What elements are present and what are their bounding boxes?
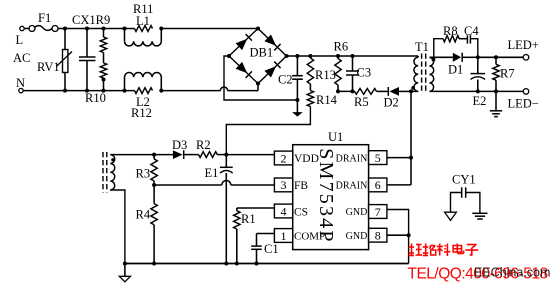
resistor R12 [131,88,153,120]
resistor R14 [307,84,337,107]
ground arrow primary [292,100,303,117]
wire D2 to drain node [399,90,411,92]
junction R10 bottom [102,89,106,93]
wire R2 to VDD node [217,154,226,156]
transformer T1 primary [414,40,429,91]
svg-text:E1: E1 [205,166,219,180]
node N terminal [16,76,25,93]
resistor R13 [307,56,336,84]
junction RV1 top [63,27,67,31]
svg-text:N: N [16,76,25,90]
inductor L1 [125,14,162,46]
svg-text:5: 5 [375,151,381,165]
junction R9/R10 mid [102,78,106,82]
pin 4 box [274,204,292,218]
junction L2 right [159,89,163,93]
capacitor CY1 [452,173,476,198]
svg-text:CS: CS [294,207,308,219]
wire R9-R10 [103,53,105,64]
wire FB line [154,184,222,186]
wire R8 to C4 [459,38,467,40]
wire L to fuse [25,28,30,30]
pin 6 box [369,178,387,192]
T1 secondary polarity dot [432,58,436,62]
resistor R7 [493,57,515,91]
junction C2 bottom [295,98,299,102]
svg-text:EEChina.com: EEChina.com [474,266,550,280]
label AC [13,51,30,65]
junction CX1 top [85,27,89,31]
svg-text:C1: C1 [264,242,279,256]
bridge diode L-T [236,34,252,50]
wire DC- from bridge [224,56,297,100]
svg-text:R7: R7 [500,67,515,81]
ground earth secondary [490,91,502,116]
junction aux ground [123,262,127,266]
bridge DB1 outline [229,29,287,84]
capacitor C4 [464,24,479,44]
diode D1 [448,53,463,77]
wire D1 to E2 node [462,56,478,58]
resistor R10 [85,63,107,105]
wire pin8 to gnd [387,234,409,236]
wire DC+ rail [287,55,419,57]
wire top rail fuse to L1 [58,28,135,30]
wire N rail [23,90,134,92]
svg-text:F1: F1 [38,11,51,25]
wire COMP line [257,233,275,235]
svg-text:6: 6 [375,178,381,192]
junction RV1 bottom [63,89,67,93]
svg-text:GND: GND [346,231,368,242]
junction C3 bottom [351,89,355,93]
capacitor C1 [251,234,278,264]
wire to LED+ [496,56,523,58]
wire VDD node to pin2 [226,154,274,156]
svg-text:L: L [16,33,24,47]
watermark EEChina.com [474,266,550,280]
svg-text:SM7534P: SM7534P [315,148,337,243]
junction R7 bottom [494,89,498,93]
label COMP [294,231,325,243]
resistor R4 [136,185,158,264]
svg-text:R4: R4 [136,208,151,222]
svg-text:D1: D1 [448,63,463,77]
svg-text:E2: E2 [473,94,487,108]
wire CS line [237,207,275,209]
label GND pin8 [346,231,368,242]
wire D3 to R2 [184,154,199,156]
wire to R7 [478,56,496,58]
wire N rail hop to bridge [228,84,258,91]
wire aux to D3 [154,154,173,156]
wire secondary bottom [430,90,524,92]
junction R9 top [102,27,106,31]
svg-text:RV1: RV1 [37,60,60,74]
junction drain node [409,89,413,93]
junction R6 top [336,54,340,58]
transformer T1 secondary [430,58,434,92]
pin 3 box [274,178,292,192]
capacitor E1 [205,155,233,264]
watermark TEL line [408,266,548,283]
watermark chinese company name [409,244,479,257]
pin 2 box [274,151,292,165]
svg-text:C4: C4 [464,24,479,38]
label FB [294,180,308,192]
fuse F1 [29,11,58,32]
wire R14 to VDD node [226,107,310,155]
wire FB hop over E1 [222,181,231,186]
junction R6 bottom [336,89,340,93]
junction pin5 drain [409,156,413,160]
svg-text:AC: AC [13,51,30,65]
svg-text:L2: L2 [136,95,150,109]
wire C4 down to cathode node [470,39,477,58]
wire drain vertical [410,91,412,184]
junction L2 left [123,89,127,93]
capacitor C2 [278,56,303,100]
junction C1 bottom [255,262,259,266]
svg-text:R5: R5 [354,95,369,109]
svg-text:4: 4 [281,204,287,218]
junction L1 left [123,27,127,31]
bridge diode B-R [264,62,280,78]
wire aux bottom [110,190,125,264]
junction R13 top [308,54,312,58]
bridge diode L-B [236,62,252,78]
svg-text:T1: T1 [415,40,429,54]
svg-text:C2: C2 [278,73,293,87]
junction R3 bottom FB [152,183,156,187]
svg-text:R8: R8 [443,24,458,38]
resistor R8 [443,24,459,42]
label CS [294,207,308,219]
svg-text:3: 3 [281,178,287,192]
junction C3 top [351,54,355,58]
svg-text:R10: R10 [85,91,106,105]
label DRAIN pin5 [336,154,368,165]
label GND pin7 [346,207,368,218]
junction L1 right [159,27,163,31]
aux polarity dot [111,158,114,161]
node L terminal [16,26,25,47]
wire aux top [110,154,154,156]
junction VDD node [224,153,228,157]
label DRAIN pin6 [336,181,368,192]
svg-text:CY1: CY1 [452,173,476,187]
svg-text:C3: C3 [357,66,372,80]
junction R1 bottom [235,262,239,266]
wire R5 to D2 [377,90,389,92]
resistor R5 [354,89,377,110]
svg-text:R1: R1 [241,212,256,226]
aux winding coil [110,155,114,190]
aux winding core [103,152,107,193]
junction bridge left [227,54,231,58]
junction E2 bottom [476,89,480,93]
svg-text:LED−: LED− [508,97,539,111]
svg-text:8: 8 [375,229,381,243]
junction bridge bottom [256,82,260,86]
junction bridge right [285,54,289,58]
pin 1 box [274,229,292,243]
wire top rail L1 to bridge [161,28,258,30]
pin 8 box [369,228,387,242]
node LED- terminal [508,89,539,111]
svg-text:DRAIN: DRAIN [336,154,368,165]
svg-text:LED+: LED+ [508,38,539,52]
wire pin6 to drain [387,184,411,186]
svg-text:GND: GND [346,207,368,218]
resistor R6 [334,40,349,92]
svg-text:U1: U1 [328,130,343,144]
wire CY1 left [451,193,462,213]
varistor RV1 [37,29,72,91]
svg-text:D3: D3 [172,138,187,152]
label SM7534P [315,148,337,243]
svg-text:R2: R2 [196,138,211,152]
wire pin7 to gnd [387,210,409,264]
wire FB to pin3 [231,184,275,186]
wire secondary top [430,56,453,58]
junction R3 top [152,153,156,157]
junction R7 top [494,55,498,59]
svg-text:CX1R9: CX1R9 [72,13,110,27]
junction E2 top [476,55,480,59]
svg-text:7: 7 [375,205,381,219]
diode D3 [172,138,187,159]
junction C2 top [295,54,299,58]
wire CY1 right [466,193,480,214]
wire drain node to primary [411,90,418,92]
svg-text:L1: L1 [136,14,150,28]
pin 7 box [369,205,387,219]
node LED+ terminal [508,38,539,60]
wire hop over DC- wire [220,87,227,91]
resistor R11 [133,2,153,31]
junction bridge top [256,27,260,31]
snubber branch up [434,39,443,58]
wire pin5 to drain [387,157,411,159]
T1 primary polarity dot [411,86,415,90]
resistor R3 [136,155,158,185]
ground triangle CY1 [445,212,457,220]
pin 5 box [369,151,387,165]
svg-text:DB1: DB1 [250,46,274,60]
svg-text:2: 2 [281,151,287,165]
svg-text:R14: R14 [316,93,338,107]
svg-text:1: 1 [281,229,287,243]
wire bottom ground rail [125,263,409,265]
op-amp U1 body [293,130,369,250]
svg-text:D2: D2 [384,96,399,110]
ground triangle aux [119,264,130,282]
resistor R9 [100,29,106,53]
wire N rail L2 to hop [161,90,220,92]
svg-text:R13: R13 [315,68,336,82]
svg-text:FB: FB [294,180,308,192]
capacitor CX1 [79,29,96,91]
label CX1R9 [72,13,110,27]
diode D2 [384,87,400,110]
ground earth CY1 [472,213,487,219]
svg-text:R6: R6 [334,40,349,54]
junction CX1 bottom [85,89,89,93]
resistor R1 [234,208,256,264]
bridge diode T-R [264,35,280,51]
label VDD [294,153,319,165]
resistor R2 [196,138,217,158]
inductor L2 [125,72,162,109]
capacitor E2 [471,57,487,108]
junction E1 bottom [224,262,228,266]
capacitor C3 [346,56,371,91]
wire clamp bottom [338,90,355,92]
svg-text:R3: R3 [136,167,151,181]
junction pin8 gnd [407,233,411,237]
junction R4 bottom [152,262,156,266]
T1 core [422,54,426,94]
svg-text:DRAIN: DRAIN [336,181,368,192]
